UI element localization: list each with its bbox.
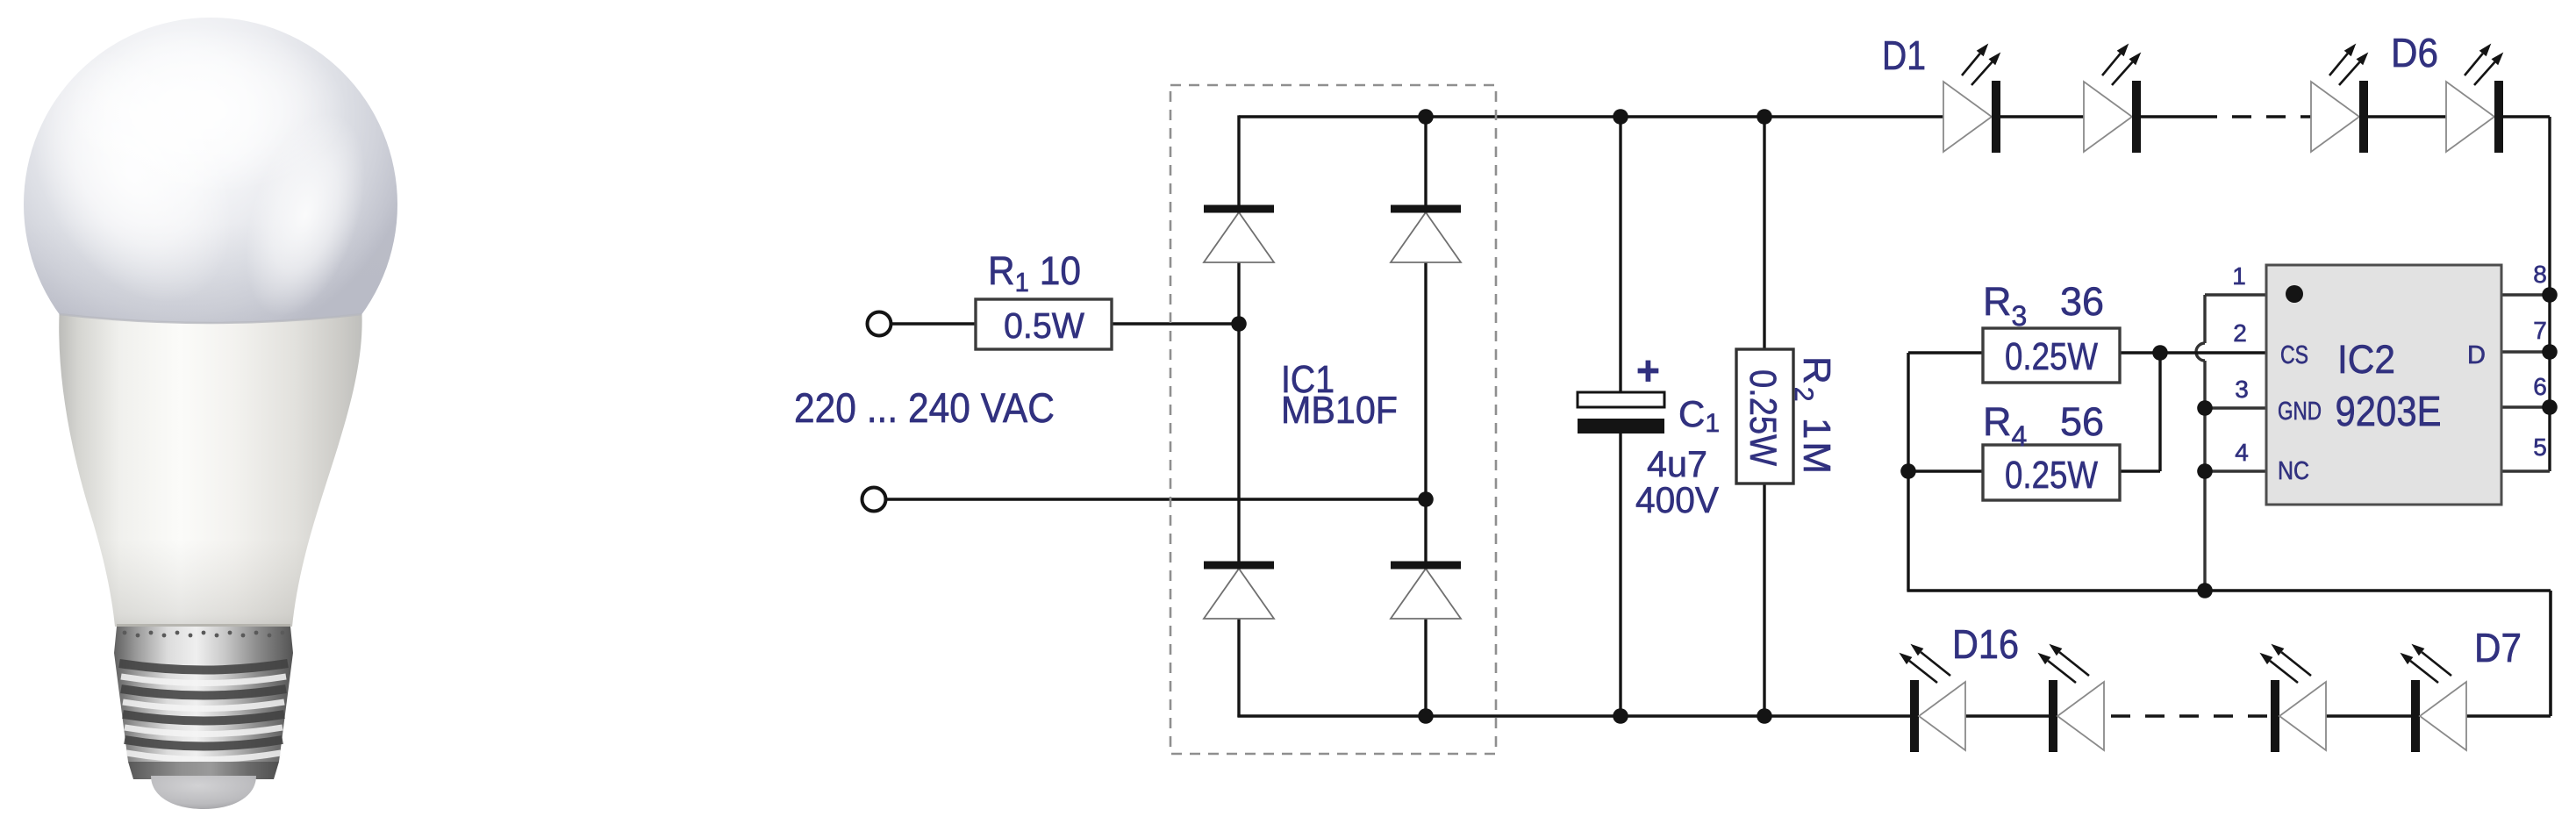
svg-text:9203E: 9203E (2336, 389, 2442, 435)
svg-text:1: 1 (2232, 262, 2246, 290)
svg-text:3: 3 (2235, 376, 2249, 403)
svg-text:R3: R3 (1983, 279, 2027, 332)
svg-text:36: 36 (2060, 279, 2104, 324)
svg-text:4u7: 4u7 (1647, 443, 1707, 484)
svg-text:0.25W: 0.25W (2005, 454, 2098, 497)
svg-text:D16: D16 (1952, 621, 2019, 667)
svg-text:400V: 400V (1635, 479, 1719, 520)
svg-text:0.5W: 0.5W (1004, 305, 1084, 346)
svg-text:R1 10: R1 10 (988, 248, 1081, 297)
svg-text:R2 1M: R2 1M (1789, 356, 1838, 474)
svg-text:C1: C1 (1678, 393, 1720, 438)
svg-text:4: 4 (2235, 439, 2249, 466)
svg-text:D6: D6 (2391, 30, 2438, 75)
svg-text:IC2: IC2 (2337, 337, 2395, 382)
svg-text:GND: GND (2278, 398, 2322, 426)
svg-text:MB10F: MB10F (1281, 389, 1398, 432)
svg-text:NC: NC (2278, 457, 2309, 485)
svg-text:0.25W: 0.25W (1742, 369, 1784, 466)
svg-text:6: 6 (2533, 373, 2547, 400)
svg-text:220 ... 240 VAC: 220 ... 240 VAC (794, 384, 1055, 431)
svg-text:D: D (2467, 341, 2486, 369)
svg-text:8: 8 (2533, 261, 2547, 288)
svg-text:D7: D7 (2474, 625, 2522, 670)
svg-text:D1: D1 (1882, 32, 1926, 78)
svg-text:0.25W: 0.25W (2005, 335, 2098, 378)
svg-text:56: 56 (2060, 399, 2104, 444)
svg-text:7: 7 (2533, 317, 2547, 344)
svg-text:2: 2 (2233, 319, 2247, 347)
svg-text:CS: CS (2280, 341, 2308, 369)
svg-text:+: + (1636, 348, 1660, 393)
svg-text:5: 5 (2533, 433, 2547, 461)
